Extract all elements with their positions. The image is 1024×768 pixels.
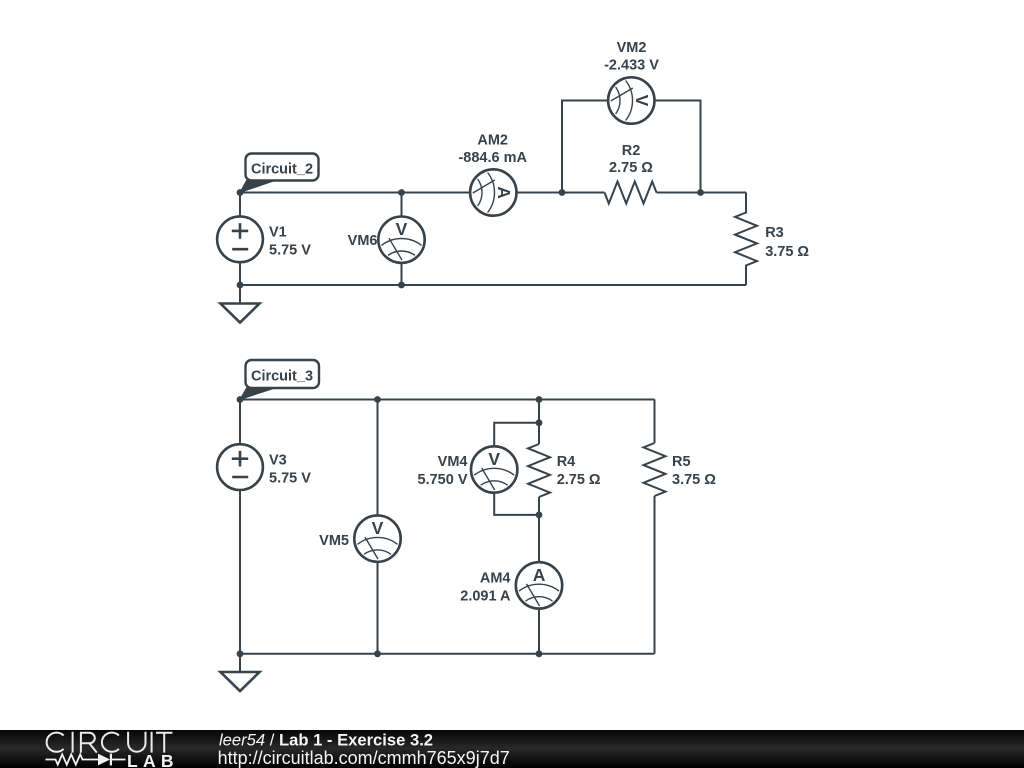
- logo CIRCUIT wordmark: [47, 732, 173, 753]
- footer bar background: [0, 730, 1024, 768]
- node: AM4 bottom junction: [536, 650, 543, 657]
- svg-text:VM4: VM4: [438, 454, 468, 470]
- svg-text:Circuit_3: Circuit_3: [251, 368, 313, 384]
- svg-text:R3: R3: [765, 225, 784, 241]
- wire: R2 right lead to R3 corner: [657, 192, 747, 194]
- voltmeter VM5: [354, 515, 400, 561]
- node: VM5 bottom junction: [374, 650, 381, 657]
- ammeter AM2: [470, 169, 516, 215]
- ammeter AM4: [516, 562, 562, 608]
- wire: V3 bottom lead: [239, 490, 241, 654]
- svg-text:V: V: [372, 518, 384, 538]
- wire: VM5 bottom lead: [377, 562, 379, 654]
- node: VM6 bottom junction: [398, 282, 405, 289]
- wire: V1 top lead: [239, 193, 241, 217]
- voltmeter VM4: [471, 446, 517, 492]
- wire: AM2 right to R2 left node: [516, 192, 604, 194]
- node: R4/VM4 top junction: [536, 419, 543, 426]
- node: VM5 top junction: [374, 396, 381, 403]
- wire: middle branch top, R4 top lead: [538, 400, 540, 445]
- svg-text:5.75 V: 5.75 V: [269, 470, 311, 486]
- svg-text:R4: R4: [557, 454, 576, 470]
- svg-text:VM2: VM2: [617, 40, 647, 56]
- svg-text:AM4: AM4: [480, 570, 511, 586]
- svg-text:Circuit_2: Circuit_2: [251, 161, 313, 177]
- wire: top net left segment, V1 top to AM2 left: [240, 192, 470, 194]
- svg-text:-2.433 V: -2.433 V: [604, 57, 659, 73]
- resistor R2: [605, 182, 657, 204]
- voltage source V1: [217, 216, 263, 262]
- svg-text:3.75 Ω: 3.75 Ω: [672, 472, 716, 488]
- svg-text:5.75 V: 5.75 V: [269, 243, 311, 259]
- ground (circuit 3): [221, 654, 260, 691]
- svg-text:5.750 V: 5.750 V: [418, 472, 468, 488]
- wire: R4 bottom lead to AM4: [538, 497, 540, 562]
- svg-text:AM2: AM2: [477, 133, 508, 149]
- svg-text:-884.6 mA: -884.6 mA: [458, 150, 527, 166]
- resistor R4: [528, 444, 550, 497]
- node: R4/VM4 bottom junction: [536, 512, 543, 519]
- svg-text:2.75 Ω: 2.75 Ω: [609, 160, 653, 176]
- svg-text:V3: V3: [269, 452, 287, 468]
- svg-text:V: V: [396, 219, 408, 239]
- callout Circuit_2: [240, 154, 319, 193]
- svg-text:3.75 Ω: 3.75 Ω: [765, 244, 809, 260]
- svg-text:2.091 A: 2.091 A: [460, 588, 511, 604]
- wire: bottom net of circuit 2: [240, 284, 746, 286]
- node: VM6 top junction: [398, 189, 405, 196]
- node: R2 right / VM2 right junction: [697, 189, 704, 196]
- wire: VM6 bottom lead: [401, 263, 403, 285]
- wire: VM2 branch left riser: [562, 101, 608, 193]
- svg-text:VM6: VM6: [348, 233, 378, 249]
- svg-text:R2: R2: [622, 143, 641, 159]
- voltmeter VM2: [608, 77, 654, 123]
- voltmeter VM6: [378, 217, 424, 263]
- node: ground junction circuit 3: [237, 650, 244, 657]
- callout Circuit_3: [240, 360, 319, 400]
- wire: AM4 bottom lead: [538, 609, 540, 654]
- wire: V1 bottom lead: [239, 262, 241, 285]
- svg-text:V: V: [632, 95, 652, 107]
- wire: VM6 top lead: [401, 193, 403, 217]
- ground (circuit 2): [221, 285, 260, 323]
- svg-text:2.75 Ω: 2.75 Ω: [557, 472, 601, 488]
- node: V1 bottom / ground junction: [237, 282, 244, 289]
- svg-text:R5: R5: [672, 454, 691, 470]
- svg-text:V1: V1: [269, 225, 287, 241]
- wire: bottom net of circuit 3: [240, 653, 655, 655]
- wire: top net of circuit 3: [240, 399, 655, 401]
- wire: VM4 loop top: [494, 423, 539, 447]
- svg-text:http://circuitlab.com/cmmh765x: http://circuitlab.com/cmmh765x9j7d7: [218, 748, 510, 768]
- svg-text:A: A: [494, 186, 514, 199]
- wire: R5 top lead: [654, 400, 656, 444]
- svg-text:A: A: [533, 565, 546, 585]
- voltage source V3: [217, 444, 263, 490]
- wire: R5 bottom lead: [654, 496, 656, 654]
- node: R2 left / VM2 left junction: [559, 189, 566, 196]
- node: middle branch top junction: [536, 396, 543, 403]
- wire: VM5 top lead: [377, 400, 379, 516]
- svg-text:leer54 / Lab 1 - Exercise 3.2: leer54 / Lab 1 - Exercise 3.2: [219, 731, 433, 750]
- resistor R5: [644, 443, 666, 496]
- logo resistor zigzag: [46, 754, 99, 764]
- wire: VM2 branch right riser: [655, 101, 701, 193]
- wire: VM4 loop bottom: [494, 493, 539, 515]
- svg-text:LAB: LAB: [127, 751, 179, 768]
- node: V1 / top-left junction: [237, 189, 244, 196]
- svg-text:VM5: VM5: [319, 533, 349, 549]
- logo diode: [98, 754, 110, 766]
- svg-text:V: V: [488, 449, 500, 469]
- node: V3 top junction: [237, 396, 244, 403]
- resistor R3: [735, 193, 757, 286]
- wire: V3 top lead: [239, 400, 241, 445]
